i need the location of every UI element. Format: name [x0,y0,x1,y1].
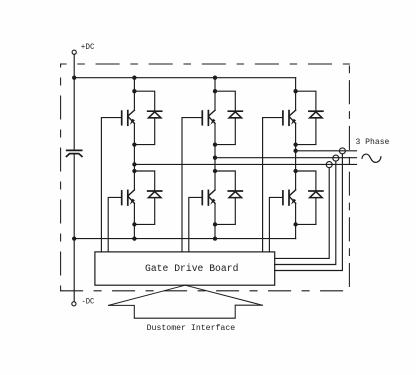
transistor Q4 (bottom leg2) [202,190,215,205]
wire gate lead Q4 (bottom leg2) [189,197,203,252]
node -DC bottom bus junction [72,236,76,240]
node top bus leg2 [213,76,217,80]
wire bottom bus to -DC terminal [73,239,75,302]
node bottom bus leg2 [213,236,217,240]
wire diode bottom Q1 (top leg1) [134,118,154,145]
wire emitter Q4 (bottom leg2) [214,203,216,224]
node phase takeoff leg2 [213,156,217,160]
wire diode top Q1 (top leg1) [134,91,154,111]
dashed system boundary box [61,64,350,291]
wire phase C output [134,163,356,165]
sine wave symbol [362,154,381,162]
diode Q4 (bottom leg2) [228,191,242,198]
wire sense phase A [275,154,343,271]
wire collector Q4 (bottom leg2) [214,171,216,190]
wire collector Q6 (bottom leg3) [295,171,297,190]
transistor Q5 (top leg3) [283,110,296,125]
node collector Q3 (top leg2) [213,89,217,93]
wire phase B output [215,157,357,159]
node emitter Q5 (top leg3) [293,142,297,146]
node collector Q1 (top leg1) [132,89,136,93]
terminal phase A [339,148,345,154]
wire diode top Q3 (top leg2) [215,91,235,111]
transistor Q2 (bottom leg1) [122,190,135,205]
wire top bus drop leg2 [214,78,216,92]
wire diode bottom Q4 (bottom leg2) [215,198,235,225]
wire gate lead Q6 (bottom leg3) [269,197,283,252]
wire diode top Q5 (top leg3) [296,91,316,111]
diode Q2 (bottom leg1) [148,191,162,198]
wire top bus corner to leg3 [295,78,297,92]
wire emitter Q6 (bottom leg3) [295,203,297,224]
wire gate lead Q1 (top leg1) [101,118,121,252]
terminal phase B [333,155,339,161]
wire emitter Q1 (top leg1) [133,123,135,144]
node collector Q4 (bottom leg2) [213,169,217,173]
wire midpoint leg1 [133,145,135,171]
diode Q1 (top leg1) [148,111,162,118]
wire bus to capacitor [73,78,75,151]
node collector Q2 (bottom leg1) [132,169,136,173]
wire diode bottom Q2 (bottom leg1) [134,198,154,225]
connector outline [109,305,263,318]
transistor Q6 (bottom leg3) [283,190,296,205]
capacitor C1 [67,150,82,156]
wire diode bottom Q6 (bottom leg3) [296,198,316,225]
node emitter Q4 (bottom leg2) [213,222,217,226]
wire emitter Q3 (top leg2) [214,123,216,144]
wire gate lead Q5 (top leg3) [263,118,283,252]
wire capacitor to bottom bus [73,154,75,239]
wire diode top Q4 (bottom leg2) [215,171,235,191]
wire collector Q5 (top leg3) [295,91,297,110]
-DC terminal [72,302,76,306]
node emitter Q2 (bottom leg1) [132,222,136,226]
svg-text:-DC: -DC [82,297,95,307]
wire collector Q2 (bottom leg1) [133,171,135,190]
wire diode bottom Q3 (top leg2) [215,118,235,145]
node emitter Q6 (bottom leg3) [293,222,297,226]
node collector Q6 (bottom leg3) [293,169,297,173]
wire diode top Q6 (bottom leg3) [296,171,316,191]
wire top bus drop leg1 [133,78,135,92]
wire emitter Q2 (bottom leg1) [133,203,135,224]
+DC terminal [72,50,76,54]
node emitter Q1 (top leg1) [132,142,136,146]
node +DC top bus junction [72,76,76,80]
transistor Q3 (top leg2) [202,110,215,125]
wire +DC to top bus [73,54,75,77]
node emitter Q3 (top leg2) [213,142,217,146]
wire diode top Q2 (bottom leg1) [134,171,154,191]
svg-text:Gate Drive Board: Gate Drive Board [145,263,238,275]
wire gate lead Q2 (bottom leg1) [108,197,122,252]
wire sense phase B [275,161,336,264]
wire diode bottom Q5 (top leg3) [296,118,316,145]
wire sense phase C [275,168,330,259]
wire +DC bus [74,77,295,79]
node top bus leg1 [132,76,136,80]
wire phase A output [296,150,357,152]
wire emitter to bottom bus leg1 [133,224,135,238]
wire midpoint leg2 [214,145,216,171]
diode Q3 (top leg2) [228,111,242,118]
wire emitter to bottom bus leg2 [214,224,216,238]
wire collector Q1 (top leg1) [133,91,135,110]
terminal phase C [326,162,332,168]
wire collector Q3 (top leg2) [214,91,216,110]
connector fan left [109,285,186,305]
node phase takeoff leg3 [293,149,297,153]
node phase takeoff leg1 [132,162,136,166]
wire emitter Q5 (top leg3) [295,123,297,144]
gate drive board U1 [95,252,275,285]
connector fan right [185,285,262,305]
node bottom bus leg1 [132,236,136,240]
wire midpoint leg3 [295,145,297,171]
wire gate lead Q3 (top leg2) [182,118,202,252]
svg-text:3 Phase: 3 Phase [356,138,390,147]
transistor Q1 (top leg1) [122,110,135,125]
svg-text:+DC: +DC [81,42,95,52]
svg-text:Dustomer Interface: Dustomer Interface [147,323,236,333]
wire emitter to bottom bus leg3 [295,224,297,238]
diode Q6 (bottom leg3) [309,191,323,198]
wire -DC bus [74,238,295,240]
diode Q5 (top leg3) [309,111,323,118]
node collector Q5 (top leg3) [293,89,297,93]
